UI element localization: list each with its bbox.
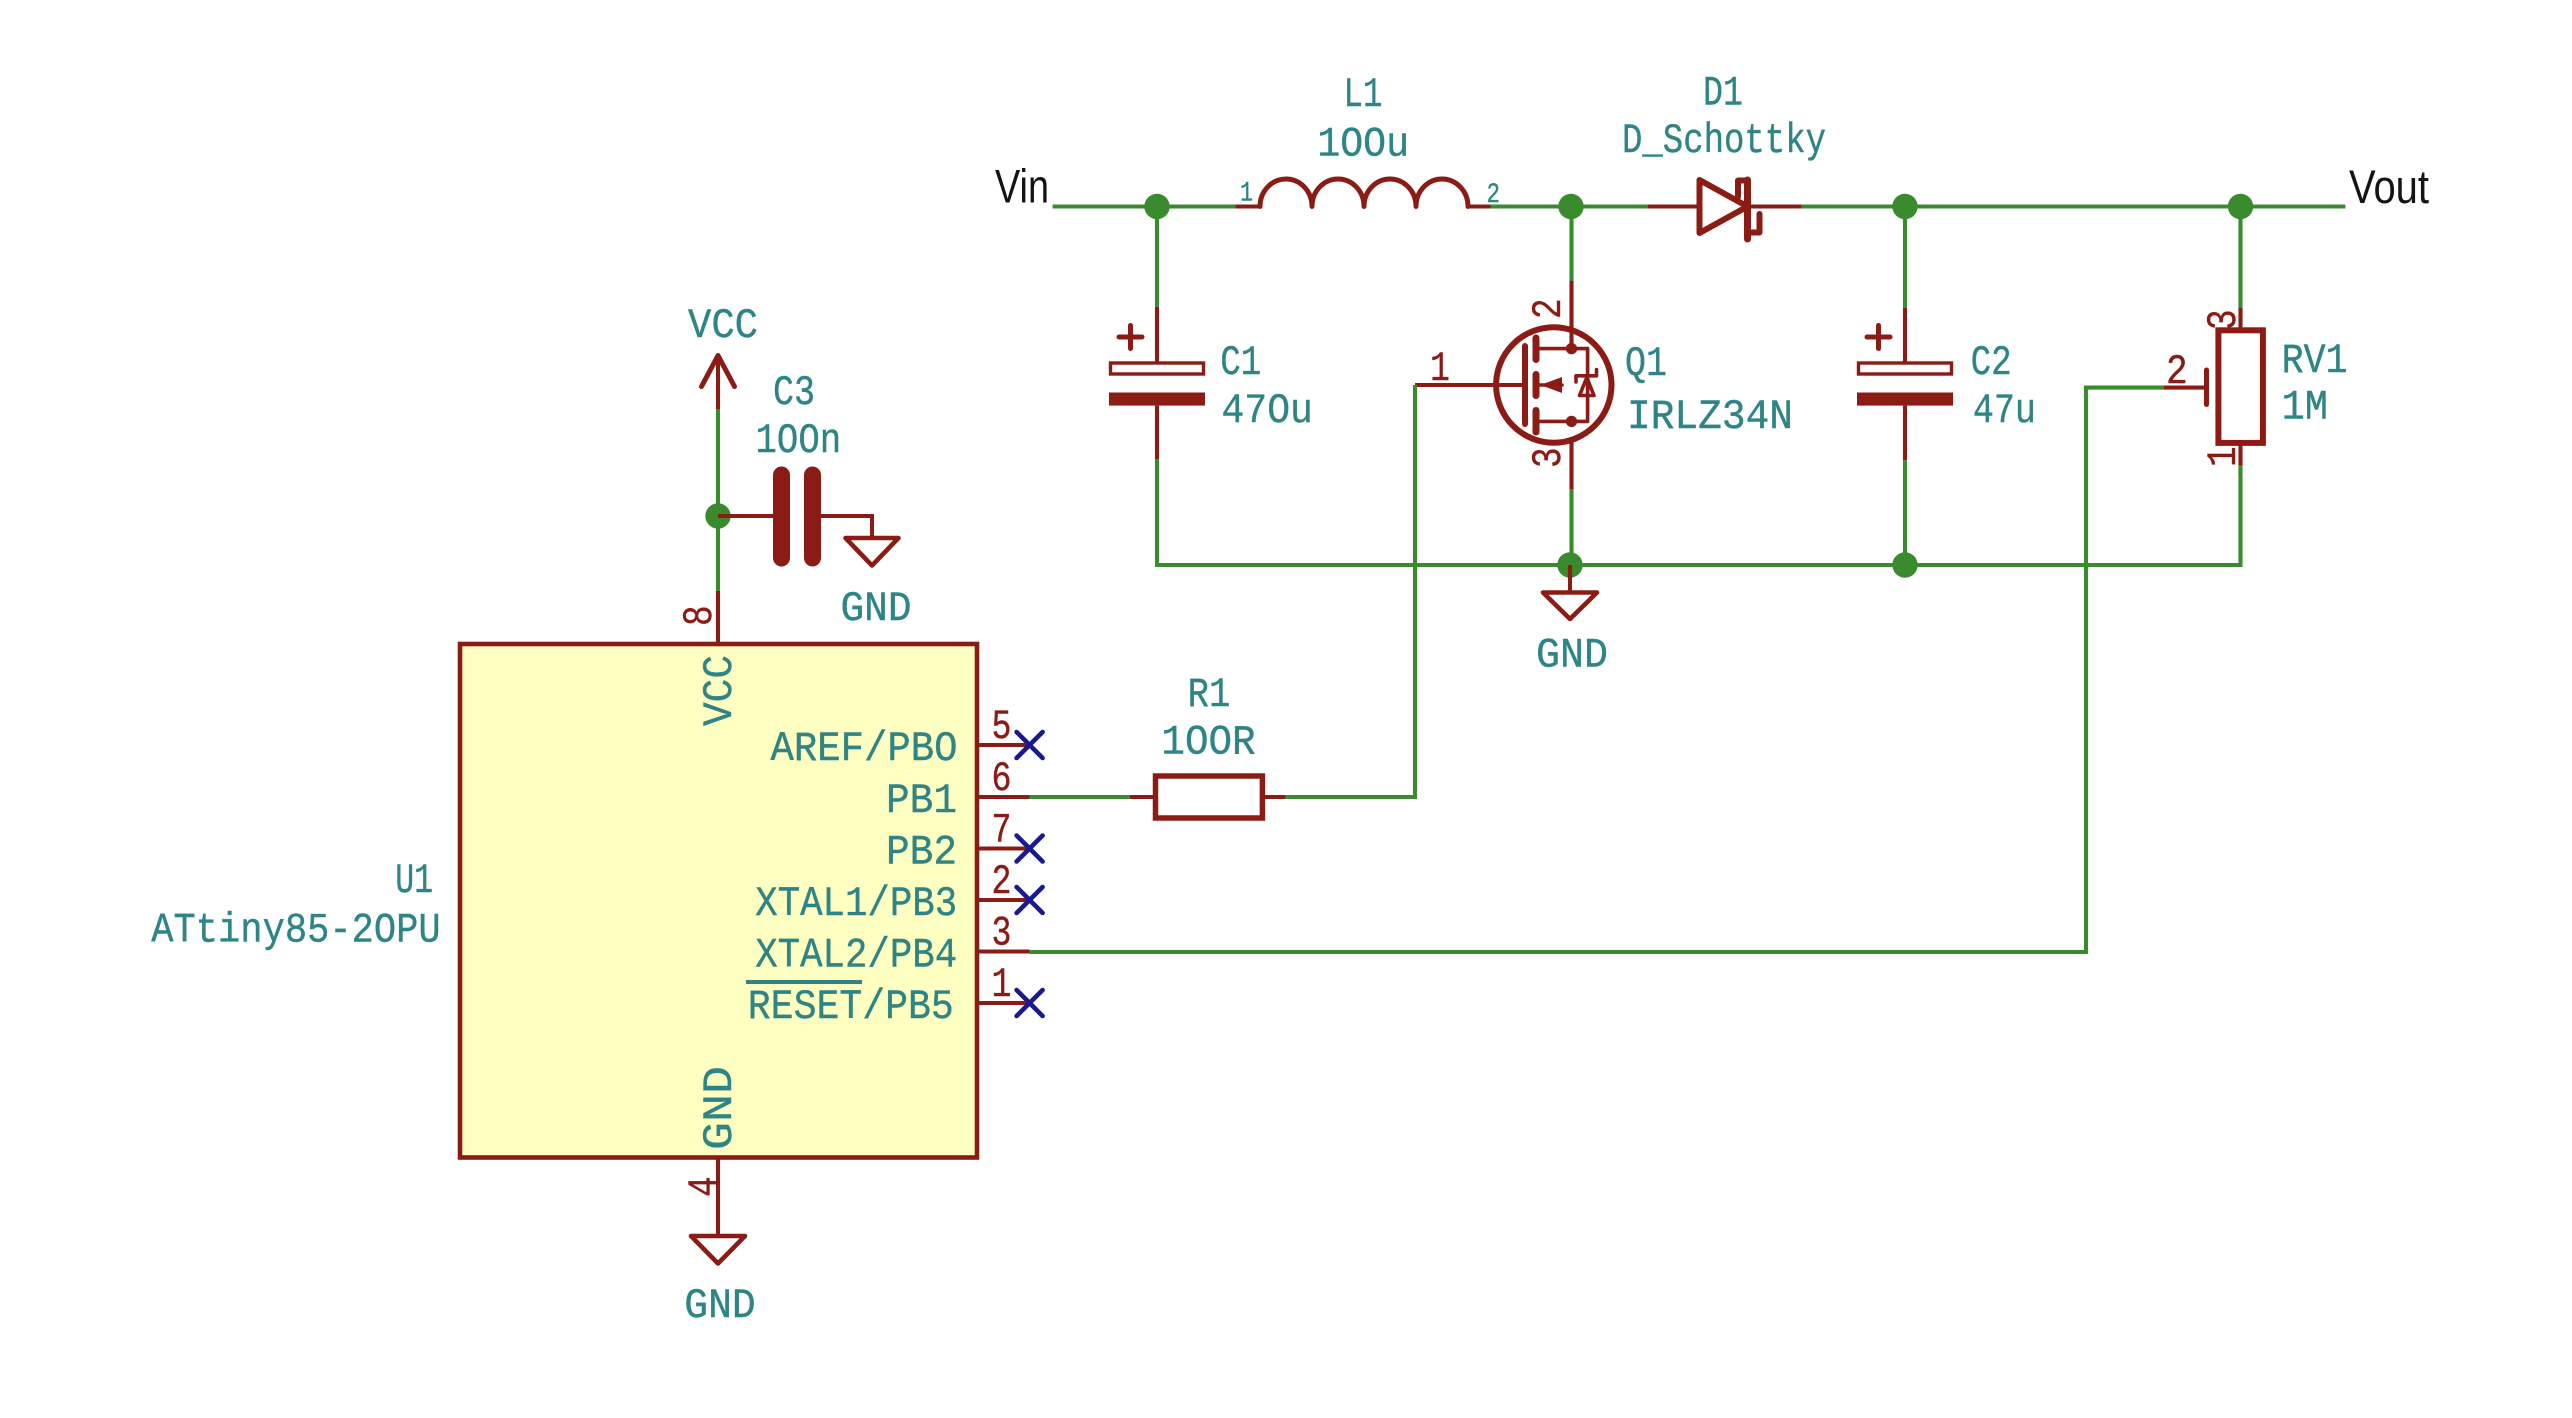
svg-text:Vin: Vin: [995, 160, 1049, 213]
no-connect X pin 2: [1017, 887, 1043, 913]
no-connect X pin 7: [1017, 836, 1043, 862]
inductor L1: [1235, 179, 1490, 207]
junction VCC/C3: [705, 503, 730, 528]
ground rail wire: [1157, 459, 2241, 565]
svg-text:7: 7: [992, 807, 1012, 855]
svg-text:47Ou: 47Ou: [1222, 387, 1313, 435]
svg-text:XTAL1/PB3: XTAL1/PB3: [755, 880, 957, 928]
svg-text:1: 1: [1240, 179, 1253, 210]
wire RV1 wiper to XTAL2/PB4: [1030, 388, 2164, 952]
potentiometer RV1: [2164, 207, 2263, 466]
pin 1 stub of U1: [977, 1001, 1030, 1005]
ground symbol below Q1: [1543, 565, 1597, 619]
svg-text:1: 1: [992, 961, 1012, 1009]
svg-text:ATtiny85-2OPU: ATtiny85-2OPU: [151, 906, 440, 954]
svg-text:D1: D1: [1703, 70, 1743, 118]
svg-text:GND: GND: [696, 1066, 744, 1150]
svg-text:C1: C1: [1220, 339, 1261, 387]
svg-text:PB1: PB1: [886, 777, 957, 825]
svg-text:8: 8: [676, 605, 724, 626]
svg-text:1OOu: 1OOu: [1317, 121, 1409, 169]
ground symbol below U1: [691, 1236, 745, 1264]
svg-text:VCC: VCC: [696, 655, 744, 726]
svg-text:GND: GND: [1536, 632, 1608, 680]
svg-text:RV1: RV1: [2282, 337, 2348, 385]
svg-text:2: 2: [2166, 348, 2188, 396]
pin 5 stub of U1: [977, 743, 1030, 747]
svg-text:2: 2: [992, 858, 1012, 906]
svg-text:2: 2: [1487, 180, 1501, 211]
pin 3 stub of U1: [977, 949, 1030, 953]
svg-text:6: 6: [992, 755, 1012, 803]
pin 8 stub of U1: [716, 591, 720, 644]
svg-text:AREF/PBO: AREF/PBO: [771, 725, 958, 773]
wire Vin to L1: [1053, 204, 1236, 208]
wire PB1 to R1: [1030, 795, 1130, 799]
svg-text:XTAL2/PB4: XTAL2/PB4: [755, 932, 957, 980]
no-connect X pin 1: [1017, 990, 1043, 1016]
svg-text:4: 4: [681, 1176, 729, 1197]
svg-text:PB2: PB2: [886, 829, 957, 877]
junction L1/Q1: [1558, 194, 1583, 219]
svg-text:Vout: Vout: [2349, 160, 2429, 213]
resistor R1: [1130, 776, 1286, 818]
svg-text:1: 1: [1430, 345, 1450, 393]
svg-text:1: 1: [2200, 446, 2248, 467]
power symbol VCC: [702, 356, 735, 410]
svg-text:3: 3: [1525, 447, 1573, 468]
pin 2 stub of U1: [977, 898, 1030, 902]
wire R1 to Q1 gate: [1286, 385, 1415, 797]
svg-text:1OOn: 1OOn: [756, 417, 842, 465]
junction C2 / ground rail: [1892, 552, 1917, 577]
svg-text:L1: L1: [1344, 71, 1383, 119]
svg-text:C3: C3: [773, 369, 815, 417]
svg-text:RESET/PB5: RESET/PB5: [748, 983, 954, 1031]
svg-text:R1: R1: [1188, 671, 1231, 719]
capacitor C3: [718, 475, 872, 558]
pin 6 stub of U1: [977, 795, 1030, 799]
IC U1 body: [460, 644, 977, 1158]
junction D1/C2: [1892, 194, 1917, 219]
overline on RESET: [746, 980, 862, 984]
svg-text:5: 5: [992, 703, 1012, 751]
ground symbol right of C3: [846, 538, 899, 566]
pin 4 stub of U1: [716, 1158, 720, 1237]
wire VCC to IC pin 8: [716, 409, 720, 591]
svg-text:GND: GND: [684, 1282, 755, 1330]
no-connect X pin 5: [1017, 732, 1043, 758]
svg-text:47u: 47u: [1973, 387, 2036, 435]
svg-text:1M: 1M: [2282, 384, 2328, 432]
capacitor C1: [1109, 207, 1205, 460]
junction Vin/C1: [1144, 194, 1169, 219]
svg-text:1OOR: 1OOR: [1161, 719, 1255, 767]
pin 7 stub of U1: [977, 846, 1030, 850]
svg-text:2: 2: [1525, 298, 1573, 319]
svg-text:C2: C2: [1971, 339, 2012, 387]
diode D1: [1648, 180, 1802, 239]
svg-text:3: 3: [2200, 309, 2248, 330]
junction Vout/RV1: [2228, 194, 2253, 219]
svg-text:Q1: Q1: [1625, 340, 1667, 388]
capacitor C2: [1857, 207, 1953, 566]
svg-text:U1: U1: [395, 857, 433, 905]
svg-text:3: 3: [992, 910, 1012, 958]
svg-text:VCC: VCC: [688, 302, 758, 350]
transistor Q1: [1415, 207, 1612, 566]
wire D1 to Vout: [1802, 204, 2346, 208]
svg-text:D_Schottky: D_Schottky: [1622, 117, 1826, 165]
junction Q1 source / ground rail: [1557, 552, 1582, 577]
svg-text:GND: GND: [841, 585, 912, 633]
wire L1 to D1: [1491, 204, 1648, 208]
svg-text:IRLZ34N: IRLZ34N: [1627, 393, 1793, 441]
